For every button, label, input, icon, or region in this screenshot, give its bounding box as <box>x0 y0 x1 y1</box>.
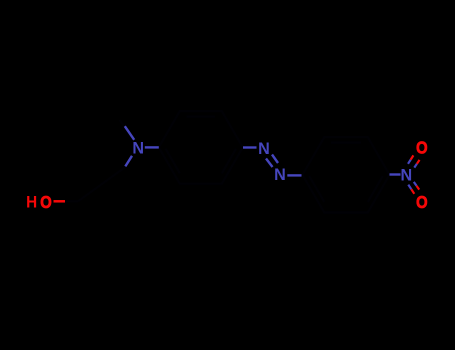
svg-text:O: O <box>40 192 52 212</box>
N-methyl bond (bright half) <box>125 126 134 140</box>
svg-text:N: N <box>274 165 286 184</box>
HO label <box>26 192 52 212</box>
benzene ring 1 (left, dark skeleton) <box>159 111 243 184</box>
azo N2 - ring2 bond <box>287 174 301 176</box>
benzene ring 2 (right, dark skeleton) <box>303 137 390 212</box>
svg-text:N: N <box>400 165 412 184</box>
amine N - ring1 bond <box>145 146 159 148</box>
svg-text:H: H <box>26 193 37 212</box>
nitro N=O top double bond (blue half / red half) <box>408 155 420 167</box>
bond HO-C (red half) <box>54 200 66 203</box>
ring2 - nitro N bond <box>390 173 401 175</box>
N-chain bond (bright half) <box>125 156 132 167</box>
nitro N=O bottom double bond (blue half / red half) <box>408 182 419 194</box>
svg-text:O: O <box>416 193 428 213</box>
svg-text:O: O <box>416 138 428 158</box>
ring1 - azo N bond <box>243 146 257 148</box>
svg-text:N: N <box>132 138 144 157</box>
propyl chain (dark skeleton) <box>65 120 126 201</box>
azo N=N double bond <box>266 155 278 168</box>
svg-text:N: N <box>258 139 270 158</box>
